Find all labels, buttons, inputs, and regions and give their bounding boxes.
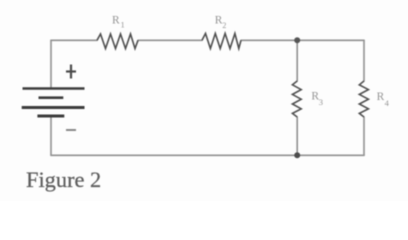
svg-text:R: R [112,15,120,27]
svg-text:2: 2 [222,21,226,30]
svg-text:1: 1 [121,20,125,30]
svg-text:4: 4 [385,98,390,108]
svg-text:Figure 2: Figure 2 [26,167,101,192]
svg-text:3: 3 [319,97,323,107]
svg-text:R: R [377,91,385,103]
